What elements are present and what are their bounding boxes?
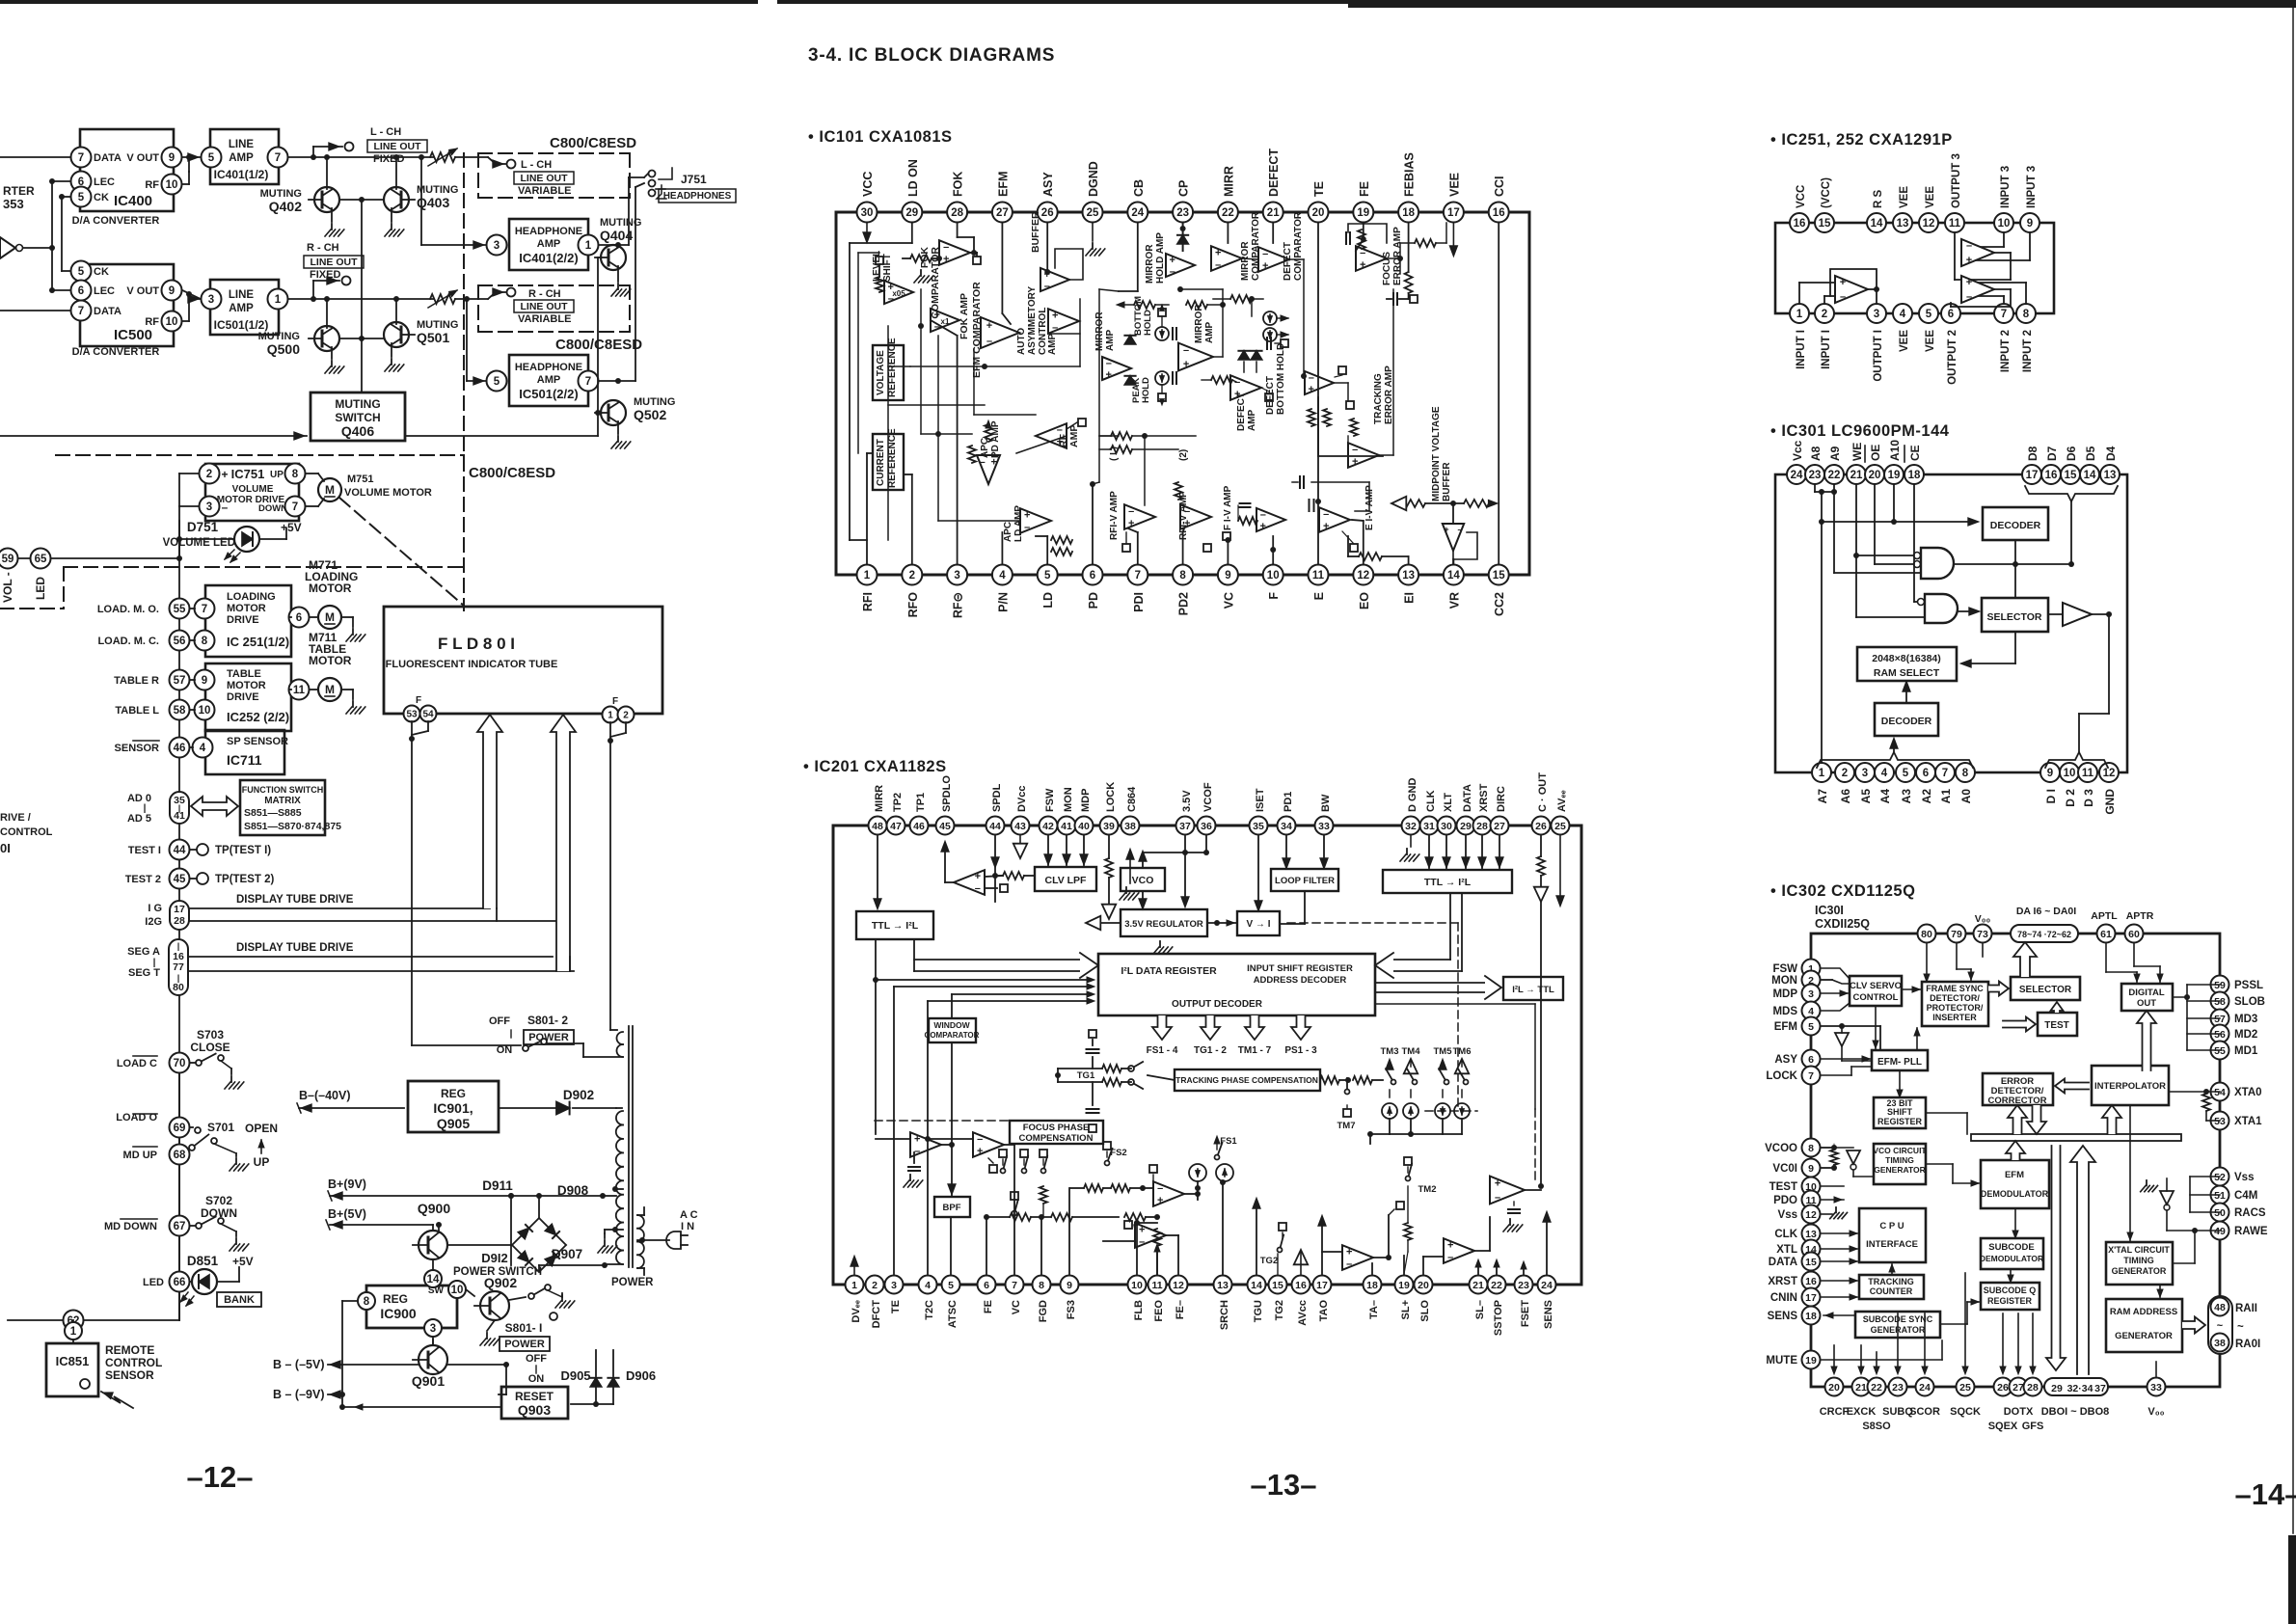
- svg-text:17: 17: [1316, 1280, 1328, 1291]
- svg-text:XRST: XRST: [1478, 783, 1490, 812]
- svg-text:BUFFER: BUFFER: [1030, 211, 1041, 253]
- FLD pin 1: [603, 696, 619, 723]
- IC302 pin 56 MD2: [2211, 1025, 2258, 1043]
- svg-text:26: 26: [1041, 207, 1054, 219]
- svg-text:1: 1: [585, 240, 592, 252]
- svg-text:IC711: IC711: [227, 752, 262, 768]
- 3.5V regulator block: [1121, 909, 1207, 936]
- IC301 pin 16 D7: [2041, 446, 2061, 484]
- svg-text:10: 10: [166, 179, 178, 191]
- IC201 pin 7 VC: [1006, 1276, 1024, 1315]
- ground Q404: [611, 266, 631, 296]
- wire TGU: [1253, 1198, 1260, 1274]
- svg-text:C800/C8ESD: C800/C8ESD: [550, 135, 636, 151]
- svg-text:HOLD: HOLD: [1141, 377, 1151, 403]
- IC251 pin 2 INPUT I: [1815, 304, 1834, 369]
- IC201 pin 12 FE&#8211;: [1170, 1276, 1188, 1320]
- svg-text:LEC: LEC: [94, 176, 115, 188]
- svg-text:18: 18: [1402, 207, 1415, 219]
- wire headphone R out: [599, 183, 644, 384]
- svg-text:66: 66: [174, 1277, 186, 1288]
- svg-text:7: 7: [202, 604, 207, 615]
- IC251 pin 7 INPUT 2: [1994, 304, 2013, 372]
- svg-text:ADDRESS DECODER: ADDRESS DECODER: [1254, 975, 1347, 986]
- wire LOCK: [1822, 1067, 1872, 1075]
- svg-text:FGD: FGD: [1038, 1300, 1049, 1322]
- wire SENS: [1543, 1211, 1551, 1274]
- wire LED D751: [176, 528, 286, 542]
- svg-text:4: 4: [1881, 768, 1888, 779]
- svg-text:VCC: VCC: [1796, 185, 1807, 208]
- svg-text:XTL: XTL: [1776, 1244, 1797, 1256]
- svg-text:8: 8: [292, 469, 299, 480]
- xtal circuit timing generator block: [2106, 1242, 2173, 1285]
- block arrow data in right: [1375, 893, 1462, 978]
- IC501 pin 3: [202, 289, 222, 310]
- svg-text:SEG A: SEG A: [127, 946, 160, 958]
- svg-text:+: +: [986, 320, 992, 332]
- IC400 pin 6 LEC: [71, 172, 116, 192]
- wire pin42 FSW: [1044, 836, 1052, 865]
- svg-text:+: +: [1106, 369, 1112, 381]
- node AD0-AD5: [127, 792, 189, 825]
- wire decoder input: [1822, 518, 1979, 526]
- svg-text:HEADPHONE: HEADPHONE: [515, 226, 582, 237]
- wire MDS: [1822, 1003, 1850, 1011]
- title 3-4. IC BLOCK DIAGRAMS: [808, 45, 1055, 66]
- pin 45 TEST2: [125, 869, 190, 889]
- svg-text:10: 10: [451, 1285, 464, 1296]
- FLD pin 2: [618, 707, 635, 723]
- svg-text:47: 47: [890, 821, 902, 832]
- svg-text:DRIVE: DRIVE: [227, 614, 259, 626]
- wire digital out to mode pins: [2173, 985, 2220, 1050]
- IC201 pin 40 MDP: [1075, 789, 1094, 835]
- IC301 pin 13 D4: [2100, 446, 2120, 484]
- TG1 network: [1055, 1030, 1175, 1132]
- svg-text:19: 19: [1357, 207, 1369, 219]
- svg-text:VC: VC: [1222, 592, 1235, 609]
- window comparator wires: [948, 991, 1094, 1274]
- svg-text:–: –: [1966, 291, 1972, 303]
- svg-text:+: +: [1495, 1178, 1500, 1190]
- wire APTR drop: [2134, 944, 2163, 984]
- wire bracket to decoder bottom: [1890, 738, 1898, 752]
- svg-text:–: –: [1840, 291, 1846, 303]
- svg-text:7: 7: [1012, 1280, 1017, 1291]
- IC301 pin 1 A7: [1812, 763, 1831, 803]
- svg-text:VEE: VEE: [1899, 330, 1910, 352]
- svg-text:8: 8: [1179, 570, 1186, 582]
- svg-text:TIMING: TIMING: [2123, 1256, 2154, 1265]
- svg-text:68: 68: [174, 1150, 186, 1161]
- svg-text:BOTTOM HOLD: BOTTOM HOLD: [1276, 343, 1286, 415]
- svg-text:14: 14: [1871, 218, 1883, 230]
- voltage reference block: [873, 338, 904, 400]
- wire SENS: [1823, 1312, 1855, 1318]
- svg-text:24: 24: [1791, 470, 1803, 481]
- svg-text:RF: RF: [145, 179, 159, 191]
- svg-text:TG1 - 2: TG1 - 2: [1194, 1045, 1227, 1056]
- svg-text:WE: WE: [1850, 443, 1864, 461]
- svg-text:10: 10: [2064, 768, 2076, 779]
- svg-text:BANK: BANK: [224, 1294, 255, 1306]
- wire PD rise: [1090, 481, 1095, 564]
- headphone amp IC401(2/2): [509, 219, 588, 270]
- display tube drive wires 2: [188, 942, 574, 971]
- svg-text:37: 37: [1179, 821, 1191, 832]
- IC302 pin 28 GFS: [2022, 1378, 2044, 1433]
- dashed control net: [875, 923, 1477, 1121]
- svg-text:REGISTER: REGISTER: [1877, 1117, 1923, 1126]
- svg-text:COMPARATOR: COMPARATOR: [1293, 211, 1304, 281]
- svg-text:45: 45: [174, 874, 186, 885]
- svg-text:6: 6: [1808, 1054, 1814, 1066]
- svg-text:RA0I: RA0I: [2235, 1339, 2260, 1350]
- IC302 pin 60 APTR: [2125, 910, 2154, 943]
- wire pin34 PD1: [1283, 836, 1290, 869]
- IC500 pin 6 LEC: [71, 281, 116, 301]
- wire DV arrow: [851, 1256, 858, 1274]
- svg-text:DECODER: DECODER: [1990, 520, 2041, 531]
- wire muting control in: [0, 432, 307, 440]
- svg-text:11: 11: [293, 685, 306, 696]
- switch TM3: [1381, 1046, 1399, 1119]
- svg-text:+5V: +5V: [232, 1255, 254, 1268]
- svg-text:–: –: [1346, 1259, 1352, 1270]
- svg-text:DEMODULATOR: DEMODULATOR: [1981, 1189, 2049, 1199]
- svg-text:+: +: [914, 1133, 920, 1145]
- svg-text:TAO: TAO: [1318, 1300, 1330, 1322]
- svg-text:I G: I G: [148, 903, 162, 914]
- svg-text:TE: TE: [890, 1300, 902, 1313]
- IC302 pin 19 MUTE: [1766, 1351, 1820, 1369]
- svg-text:IC 251(1/2): IC 251(1/2): [227, 635, 289, 649]
- pin 57 TABLE R: [114, 670, 189, 690]
- IC302 pin 73 VDD: [1974, 913, 1992, 943]
- svg-text:V → I: V → I: [1246, 919, 1270, 930]
- svg-text:20: 20: [1418, 1280, 1429, 1291]
- IC301 pin 7 A1: [1935, 763, 1955, 803]
- IC751 pin 7: [285, 497, 306, 517]
- label D912 POWER SWITCH Q902: [453, 1251, 542, 1290]
- svg-text:15: 15: [1805, 1257, 1817, 1268]
- section label IC302 CXD1125Q: [1770, 882, 1915, 900]
- IC201 pin 48 MIRR: [869, 785, 887, 835]
- svg-text:V₀₀: V₀₀: [1975, 913, 1991, 925]
- input amp: [954, 870, 985, 895]
- svg-text:S701: S701: [207, 1121, 234, 1134]
- label C800/C8ESD top: [550, 135, 636, 151]
- svg-text:+: +: [1966, 277, 1972, 288]
- svg-text:IC900: IC900: [380, 1306, 417, 1321]
- IC IC711 SP sensor: [205, 730, 288, 774]
- svg-text:15: 15: [2065, 470, 2077, 481]
- svg-text:44: 44: [989, 821, 1001, 832]
- svg-text:D8: D8: [2026, 446, 2039, 461]
- IC201 pin 22 SSTOP: [1488, 1276, 1506, 1337]
- svg-text:16: 16: [1794, 218, 1806, 230]
- svg-text:OUT: OUT: [2137, 998, 2156, 1009]
- switch TM6: [1453, 1046, 1472, 1119]
- amp G big: [1490, 1177, 1541, 1232]
- test block: [2038, 1013, 2077, 1036]
- svg-text:EFM: EFM: [1774, 1021, 1797, 1033]
- svg-text:8: 8: [1039, 1280, 1044, 1291]
- APC PD amp: [968, 420, 1001, 484]
- IC251 pin 14 R S: [1867, 190, 1886, 233]
- IC302 pin 25 SQCK: [1950, 1378, 1981, 1419]
- svg-text:11: 11: [1312, 570, 1325, 582]
- node SEGA-SEGT: [127, 939, 188, 995]
- test point TP(TEST 1): [190, 844, 271, 856]
- wire amp input network: [985, 872, 1035, 892]
- wire decoder-selector: [2014, 540, 2016, 598]
- svg-text:–: –: [1106, 358, 1112, 369]
- wire from op-amp to node: [23, 245, 55, 251]
- IC302 pin 16 XRST: [1768, 1272, 1820, 1290]
- IC201 pin 13 SRCH: [1214, 1276, 1232, 1331]
- decoder block top: [1983, 507, 2048, 540]
- svg-text:RESET: RESET: [515, 1390, 554, 1403]
- svg-text:3-4. IC BLOCK DIAGRAMS: 3-4. IC BLOCK DIAGRAMS: [808, 45, 1055, 66]
- svg-text:XLT: XLT: [1443, 793, 1454, 812]
- window comparator block: [925, 1018, 980, 1042]
- svg-text:30: 30: [1441, 821, 1452, 832]
- FOK comparator: [919, 240, 981, 318]
- IC301 pin 23 A8: [1805, 446, 1824, 484]
- svg-text:–: –: [222, 501, 229, 514]
- wire pin25 AVEE: [1556, 836, 1564, 907]
- pin 56 LOAD.M.C.: [97, 631, 189, 651]
- page right scan edge: [2288, 8, 2296, 1624]
- svg-text:LINE OUT: LINE OUT: [521, 173, 569, 184]
- svg-text:–: –: [977, 1133, 983, 1145]
- wire pin48 MIRR: [873, 836, 881, 1134]
- svg-text:MIRR: MIRR: [1222, 166, 1235, 197]
- svg-text:HOLD: HOLD: [1143, 310, 1153, 336]
- svg-text:12: 12: [1923, 218, 1935, 230]
- wire and ground M711: [310, 690, 365, 714]
- wire RFI rise: [867, 453, 873, 564]
- FLD filament wires left: [409, 721, 428, 1045]
- Q500 collector wire: [324, 296, 330, 328]
- wire L to variable out: [419, 154, 516, 169]
- wire bottom riser x1996: [1922, 1313, 1928, 1374]
- EFM comparator: [971, 282, 1019, 378]
- svg-text:+: +: [934, 310, 940, 321]
- IC302 outline: [1811, 934, 2220, 1387]
- bracket A7-A0: [1817, 752, 1973, 768]
- switch S703 CLOSE: [117, 1028, 244, 1089]
- RAM address generator block: [2106, 1299, 2182, 1352]
- svg-text:6: 6: [984, 1280, 989, 1291]
- BPF block: [934, 1197, 970, 1217]
- svg-text:SLOB: SLOB: [2234, 996, 2265, 1008]
- svg-text:FEO: FEO: [1153, 1300, 1165, 1322]
- svg-text:BW: BW: [1320, 794, 1332, 812]
- motor M771 loading: [305, 558, 358, 629]
- IC302 pin 11 PDO: [1773, 1191, 1820, 1209]
- svg-text:LOCK: LOCK: [1105, 782, 1117, 812]
- svg-text:3: 3: [1874, 309, 1879, 320]
- svg-text:TRACKING PHASE COMPENSATION: TRACKING PHASE COMPENSATION: [1175, 1075, 1318, 1085]
- IC201 pin 30 XLT: [1438, 793, 1456, 835]
- buffer triangle IC301: [2063, 603, 2092, 626]
- svg-text:D905: D905: [560, 1368, 590, 1383]
- pin 68 MD UP: [123, 1145, 190, 1165]
- wire EI rise: [1348, 536, 1409, 564]
- wire selector to RAM select: [1960, 632, 2015, 667]
- wire FEO rise: [1154, 1244, 1160, 1274]
- LED D751: [163, 520, 302, 562]
- decoder output arrow TG1 - 2: [1194, 1015, 1227, 1056]
- pin 10 IC252: [190, 700, 215, 720]
- svg-text:DISPLAY TUBE DRIVE: DISPLAY TUBE DRIVE: [236, 942, 354, 954]
- svg-text:VCO CIRCUIT: VCO CIRCUIT: [1873, 1146, 1927, 1155]
- svg-text:A2: A2: [1920, 789, 1933, 804]
- svg-text:A7: A7: [1816, 789, 1829, 804]
- servo switch bank: [999, 1150, 1047, 1217]
- svg-text:14: 14: [2084, 470, 2096, 481]
- dashed boundary lower left: [0, 567, 464, 609]
- op-amp 3 wires: [1951, 283, 2026, 307]
- IC501(2/2) pin 5: [487, 371, 507, 392]
- svg-text:21: 21: [1855, 1382, 1867, 1394]
- svg-text:AMP: AMP: [229, 152, 254, 164]
- svg-text:Vss: Vss: [1778, 1209, 1797, 1221]
- svg-text:42: 42: [1042, 821, 1054, 832]
- svg-text:17: 17: [174, 904, 185, 915]
- svg-text:20: 20: [1828, 1382, 1840, 1394]
- svg-text:6: 6: [1948, 309, 1954, 320]
- tracking counter block: [1859, 1275, 1924, 1299]
- IC301 pin 10 D 2: [2060, 763, 2079, 807]
- tracking error amp: [1346, 365, 1394, 468]
- svg-text:53: 53: [406, 710, 418, 720]
- IC900 pin 8: [342, 1292, 375, 1310]
- svg-text:1: 1: [864, 570, 871, 582]
- svg-text:TM5: TM5: [1434, 1046, 1453, 1057]
- svg-text:19: 19: [1398, 1280, 1410, 1291]
- dashed boundary C800/C8ESD: [56, 153, 555, 610]
- VCO block: [1121, 868, 1165, 891]
- svg-text:1: 1: [608, 711, 613, 721]
- svg-text:10: 10: [166, 316, 178, 328]
- IC IC751 volume motor drive: [205, 464, 299, 521]
- svg-text:1: 1: [1819, 768, 1825, 779]
- svg-text:FLUORESCENT INDICATOR TUBE: FLUORESCENT INDICATOR TUBE: [386, 659, 558, 670]
- regulator IC901 Q905: [408, 1081, 499, 1132]
- pin 4 IC711: [190, 738, 213, 758]
- label D907: [552, 1247, 582, 1261]
- svg-text:SEG T: SEG T: [128, 967, 160, 979]
- svg-text:C · OUT: C · OUT: [1537, 772, 1549, 812]
- svg-text:–: –: [1024, 522, 1030, 533]
- wire to transformer primary top: [603, 1195, 616, 1197]
- IC251 pin 10 INPUT 3: [1994, 166, 2013, 232]
- wire A8 A9 junction: [1815, 485, 1834, 495]
- svg-text:POWER: POWER: [611, 1277, 654, 1288]
- wire MIRR drop: [1227, 223, 1229, 243]
- IC302 pin 18 SENS: [1768, 1307, 1821, 1325]
- switch TM7: [1337, 1078, 1356, 1131]
- switch S701: [189, 1121, 249, 1171]
- svg-text:LINE OUT: LINE OUT: [521, 301, 569, 312]
- amp E: [1322, 1202, 1404, 1274]
- IC101 pin 3 RF&#8861;: [947, 565, 967, 619]
- svg-text:D851: D851: [187, 1254, 219, 1268]
- svg-text:21: 21: [1472, 1280, 1484, 1291]
- svg-text:65: 65: [35, 554, 47, 565]
- svg-text:0I: 0I: [0, 841, 11, 855]
- comp amp D: [1103, 1221, 1178, 1274]
- svg-text:353: 353: [3, 197, 24, 211]
- svg-text:28: 28: [951, 207, 963, 219]
- wire A10 drop: [1893, 485, 1895, 522]
- transistor Q900: [413, 1196, 511, 1259]
- wire subcode sync right: [1940, 1299, 1979, 1324]
- remote beam arrow: [101, 1392, 133, 1408]
- svg-text:69: 69: [174, 1123, 186, 1134]
- svg-text:PD: PD: [1087, 592, 1100, 609]
- svg-text:22: 22: [1222, 207, 1234, 219]
- bracket D8-D4: [2025, 486, 2118, 501]
- svg-text:29: 29: [905, 207, 918, 219]
- IC201 pin 37 3.5V: [1176, 790, 1195, 835]
- svg-text:XRST: XRST: [1768, 1276, 1797, 1287]
- svg-text:L - CH: L - CH: [370, 126, 401, 138]
- svg-text:–: –: [943, 241, 949, 253]
- wire VCO nets: [1139, 836, 1209, 909]
- IC302 pin 12 Vss: [1778, 1205, 1821, 1224]
- wire E rise: [1315, 397, 1321, 564]
- svg-text:9: 9: [1067, 1280, 1072, 1291]
- svg-text:M: M: [325, 610, 335, 624]
- svg-text:D GND: D GND: [1407, 778, 1418, 813]
- svg-text:–: –: [1260, 509, 1266, 521]
- IC IC500 D/A converter: [72, 264, 174, 358]
- wire VDD33 stub: [2155, 1362, 2157, 1376]
- svg-text:7: 7: [1135, 570, 1141, 582]
- svg-text:67: 67: [174, 1221, 186, 1232]
- IC301 pin 2 A6: [1835, 763, 1854, 803]
- svg-text:Q905: Q905: [437, 1116, 470, 1131]
- wire VCC arrow: [863, 223, 871, 243]
- IIL data register block: [1098, 954, 1375, 1015]
- wire VC rise: [1225, 537, 1230, 564]
- svg-text:LINE OUT: LINE OUT: [311, 257, 359, 268]
- svg-text:10: 10: [1131, 1280, 1143, 1291]
- IC302 pin 14 XTL: [1776, 1240, 1820, 1259]
- Q403 collector wire: [393, 154, 399, 189]
- wire framesync to EFMPLL: [1914, 1028, 1920, 1050]
- section label IC301 LC9600PM-144: [1770, 422, 1950, 440]
- svg-text:D4: D4: [2104, 446, 2118, 461]
- pin 11 IC252 out: [289, 680, 310, 700]
- svg-text:DEFECT: DEFECT: [1283, 242, 1293, 281]
- IC101 pin 14 VR: [1444, 565, 1464, 609]
- wire subcode demod to Qreg: [2008, 1269, 2013, 1283]
- wire bottom riser x2093: [2015, 1313, 2021, 1374]
- svg-text:–: –: [1183, 345, 1189, 357]
- svg-text:–: –: [1128, 505, 1134, 517]
- switch S801-1: [480, 1285, 575, 1345]
- arrow frame sync to selector: [1988, 982, 2009, 996]
- svg-text:55: 55: [174, 604, 186, 615]
- decoder output arrow FS1 - 4: [1147, 1015, 1178, 1056]
- IC302 pin 8 VCOO: [1765, 1139, 1820, 1157]
